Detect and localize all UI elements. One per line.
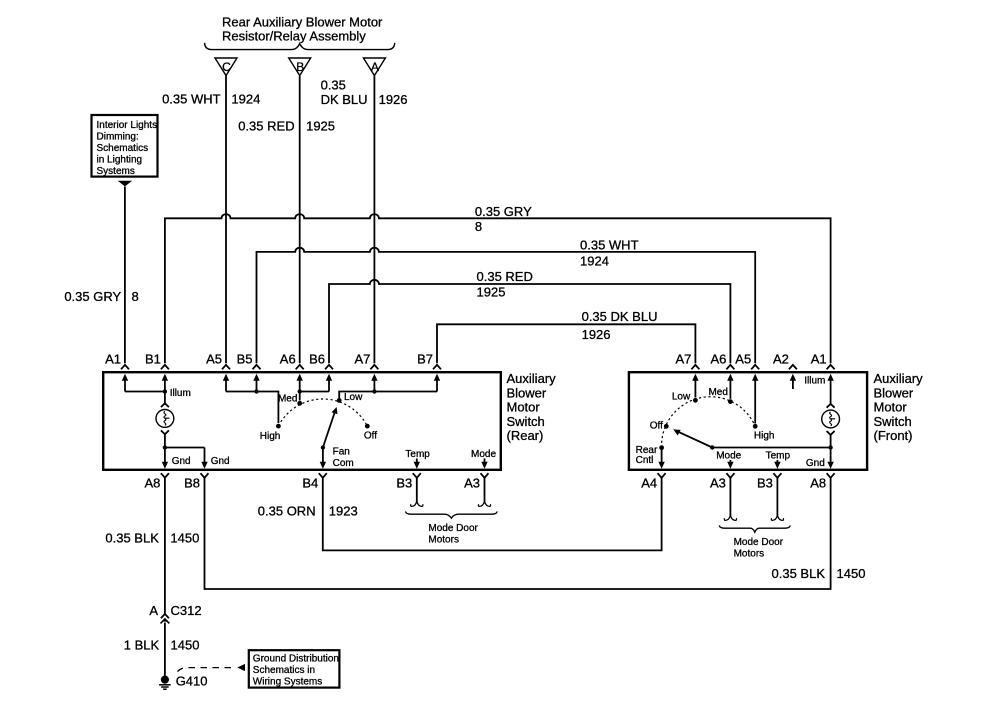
- svg-text:C: C: [222, 60, 231, 74]
- value label 0.35 GRY / 8 (left): [64, 289, 138, 304]
- svg-text:A2: A2: [773, 351, 789, 366]
- svg-text:Low: Low: [344, 392, 363, 403]
- svg-text:Wiring Systems: Wiring Systems: [253, 677, 322, 688]
- wire stub: front B3 to mode door motors: [771, 478, 783, 521]
- svg-text:0.35 BLK: 0.35 BLK: [772, 566, 826, 581]
- svg-text:A3: A3: [464, 476, 480, 491]
- pin A6 (front switch, top): [710, 351, 734, 369]
- wire: 0.35 DK BLU 1926 from pin A to rear switch A7: [373, 76, 375, 364]
- svg-text:Motor: Motor: [507, 400, 541, 415]
- pin A5 (rear switch, top): [206, 351, 230, 369]
- label Illum (rear): [170, 388, 191, 399]
- svg-text:(Rear): (Rear): [507, 428, 544, 443]
- label: Rear Auxiliary Blower Motor Resistor/Relay Assembly: [222, 15, 383, 44]
- svg-text:Auxiliary: Auxiliary: [507, 371, 557, 386]
- value label 0.35 BLK / 1450 (rear A8): [105, 531, 199, 546]
- svg-text:in Lighting: in Lighting: [97, 155, 143, 166]
- svg-text:High: High: [754, 430, 775, 441]
- svg-text:8: 8: [132, 289, 139, 304]
- wiper pivot junction (rear): [321, 445, 325, 449]
- wiper pivot junction (front): [710, 445, 714, 449]
- svg-text:1926: 1926: [379, 92, 408, 107]
- svg-text:Motors: Motors: [734, 549, 765, 560]
- svg-text:Switch: Switch: [507, 414, 545, 429]
- pin A8 (front switch, bottom): [810, 473, 834, 490]
- svg-text:G410: G410: [176, 673, 208, 688]
- wire: rear A1-B1 illum join: [125, 391, 165, 393]
- wire: rear A7-B7 join, drop to Low contact: [339, 392, 437, 399]
- svg-text:Resistor/Relay Assembly: Resistor/Relay Assembly: [222, 28, 366, 43]
- pin B5 (rear switch, top): [237, 351, 261, 369]
- pin A4 (front switch, bottom): [641, 473, 665, 490]
- svg-text:8: 8: [475, 219, 482, 234]
- label: Auxiliary Blower Motor Switch (Rear): [507, 371, 557, 443]
- svg-text:0.35 GRY: 0.35 GRY: [475, 204, 532, 219]
- contact High (rear): [276, 424, 281, 429]
- svg-text:Ground Distribution: Ground Distribution: [253, 654, 339, 665]
- value label 0.35 DK BLU / 1926: [321, 77, 408, 107]
- junction at rear A7: [372, 389, 376, 393]
- svg-text:B7: B7: [417, 351, 433, 366]
- svg-text:Motor: Motor: [874, 400, 908, 415]
- pin arrow down to rear B8 (Gnd): [201, 448, 207, 469]
- pin arrow down to rear A8 (Gnd): [162, 448, 168, 469]
- svg-text:DK BLU: DK BLU: [321, 92, 368, 107]
- svg-text:1926: 1926: [582, 327, 611, 342]
- svg-text:Low: Low: [672, 391, 691, 402]
- value label 1 BLK / 1450: [124, 638, 200, 653]
- contact High (front): [753, 424, 758, 429]
- svg-text:Rear Auxiliary Blower Motor: Rear Auxiliary Blower Motor: [222, 15, 383, 30]
- wire: gnd row join B1-B8: [165, 447, 205, 449]
- svg-text:B8: B8: [184, 476, 200, 491]
- svg-text:Schematics: Schematics: [97, 143, 149, 154]
- off-page arrow from interior lights box: [118, 181, 132, 187]
- svg-text:High: High: [260, 431, 281, 442]
- contact Rear Cntl (front): [659, 445, 664, 450]
- reference box: Interior Lights Dimming Schematics in Lighting Systems: [92, 115, 158, 177]
- svg-text:A6: A6: [710, 351, 726, 366]
- brace over connectors C,B,A: [205, 43, 395, 50]
- svg-text:A1: A1: [105, 351, 121, 366]
- svg-text:1450: 1450: [837, 566, 866, 581]
- svg-text:A7: A7: [354, 351, 370, 366]
- illumination lamp (front switch): [822, 404, 840, 435]
- junction at rear B5: [254, 389, 258, 393]
- wire: 0.35 RED 1925 bus from rear B6 to front A6 (hop over A wire): [329, 280, 730, 363]
- pin arrow into rear switch A5: [223, 374, 229, 392]
- pin arrow into front A1 (Illum): [827, 374, 833, 404]
- pin arrow into front A7, wire to Low contact: [692, 374, 698, 398]
- value label 0.35 RED / 1925 (bus): [477, 269, 533, 299]
- svg-text:Temp: Temp: [405, 449, 430, 460]
- svg-text:Illum: Illum: [170, 388, 191, 399]
- wire: 0.35 DK BLU 1926 bus from rear B7 to front A7: [437, 324, 695, 363]
- svg-text:1925: 1925: [306, 119, 335, 134]
- pin arrow into rear switch A7: [371, 374, 377, 392]
- label G410: [176, 673, 208, 688]
- pin A7 (front switch, top): [675, 351, 699, 369]
- wire stub: front A3 to mode door motors: [724, 478, 736, 521]
- svg-text:B5: B5: [237, 351, 253, 366]
- pin A3 (front switch, bottom): [710, 473, 734, 490]
- in-line connector C312 cavity A: [161, 614, 170, 624]
- contact Med (front): [728, 399, 733, 404]
- wire: 0.35 RED 1925 from pin B to rear switch A6: [299, 76, 301, 364]
- wire: 1 BLK 1450 from C312 to G410: [164, 623, 166, 676]
- connector pin C (resistor/relay assembly): [215, 58, 237, 76]
- svg-text:0.35 WHT: 0.35 WHT: [580, 238, 639, 253]
- svg-text:B4: B4: [302, 476, 318, 491]
- svg-text:0.35 WHT: 0.35 WHT: [162, 92, 221, 107]
- pin A5 (front switch, top): [735, 351, 759, 369]
- value label 0.35 RED / 1925: [238, 119, 335, 134]
- rotary contact arc (front, dashed) from Rear Cntl through Low/Med to High: [662, 397, 756, 448]
- svg-text:Auxiliary: Auxiliary: [874, 371, 924, 386]
- pin B8 (rear switch, bottom): [184, 473, 208, 490]
- svg-text:Switch: Switch: [874, 414, 912, 429]
- svg-text:B3: B3: [396, 476, 412, 491]
- label Temp + arrow to rear B3: [405, 449, 430, 460]
- svg-text:1925: 1925: [477, 284, 506, 299]
- svg-text:B6: B6: [309, 351, 325, 366]
- svg-text:B: B: [296, 60, 304, 74]
- svg-text:Interior Lights: Interior Lights: [97, 120, 158, 131]
- contact Off (rear): [365, 424, 370, 429]
- pin arrow into front A6, wire to Med contact: [727, 374, 733, 399]
- pin arrow into rear switch A6: [297, 374, 303, 392]
- junction at rear A6: [298, 389, 302, 393]
- svg-text:Mode: Mode: [716, 450, 741, 461]
- svg-text:0.35 RED: 0.35 RED: [238, 119, 294, 134]
- pin B3 (front switch, bottom): [757, 473, 781, 490]
- value label 0.35 ORN / 1923: [258, 503, 358, 518]
- wire: 0.35 BLK 1450 from rear B8 to front A8: [205, 478, 831, 589]
- svg-text:Illum: Illum: [804, 375, 825, 386]
- svg-text:C312: C312: [171, 603, 202, 618]
- wire: rear A6-B6 join: [300, 391, 329, 393]
- svg-text:Schematics in: Schematics in: [253, 665, 315, 676]
- svg-text:0.35 DK BLU: 0.35 DK BLU: [582, 309, 658, 324]
- pin A3 (rear switch, bottom): [464, 473, 488, 490]
- pin A7 (rear switch, top): [354, 351, 378, 369]
- junction at rear B1: [163, 389, 167, 393]
- label Gnd (rear B8): [211, 456, 230, 467]
- svg-text:B1: B1: [145, 351, 161, 366]
- pin arrow down to front A4 (Rear Cntl): [658, 448, 664, 469]
- value label 0.35 DK BLU / 1926 (bus): [582, 309, 658, 342]
- wire: A6 drop to Med contact: [299, 392, 301, 401]
- svg-text:0.35: 0.35: [321, 77, 346, 92]
- wire: front wiper pivot to gnd row: [712, 447, 830, 449]
- svg-text:1923: 1923: [329, 503, 358, 518]
- svg-text:Gnd: Gnd: [806, 458, 825, 469]
- svg-text:Gnd: Gnd: [211, 456, 230, 467]
- svg-text:Systems: Systems: [97, 166, 135, 177]
- svg-text:Blower: Blower: [507, 385, 547, 400]
- label Mode + arrow to front A3: [716, 450, 741, 461]
- svg-text:Med: Med: [708, 387, 727, 398]
- svg-text:Dimming:: Dimming:: [97, 132, 139, 143]
- svg-text:Cntl: Cntl: [636, 455, 654, 466]
- svg-text:A4: A4: [641, 476, 657, 491]
- pin B4 (rear switch, bottom): [302, 473, 326, 490]
- svg-text:Com: Com: [333, 458, 354, 469]
- wire: 0.35 WHT 1924 bus from rear B5 to front A5 (hops over B,A wires): [257, 248, 756, 364]
- wire: B1 down to illumination lamp: [164, 392, 166, 404]
- wire: 0.35 BLK 1450 from rear A8 down to C312: [164, 478, 166, 614]
- pin A6 (rear switch, top): [280, 351, 304, 369]
- rotary contact arc (rear, dashed): [278, 399, 367, 426]
- label Mode + arrow to rear A3: [471, 449, 496, 460]
- pin arrow into rear switch B7: [434, 374, 440, 392]
- pin arrow into front A2 (stub): [790, 374, 796, 389]
- svg-text:A: A: [371, 60, 379, 74]
- pin B1 (rear switch, top): [145, 351, 169, 369]
- wire stub: rear B3 to mode door motors: [411, 478, 423, 507]
- svg-text:Blower: Blower: [874, 385, 914, 400]
- svg-text:Med: Med: [278, 393, 297, 404]
- svg-text:0.35 BLK: 0.35 BLK: [105, 531, 159, 546]
- svg-text:Mode Door: Mode Door: [734, 537, 784, 548]
- svg-text:1450: 1450: [171, 638, 200, 653]
- junction at rear gnd row: [163, 445, 167, 449]
- pin A2 (front switch, top): [773, 351, 797, 369]
- label Gnd + arrow down to front A8: [806, 458, 825, 469]
- pin arrow into rear switch B1: [162, 374, 168, 392]
- svg-text:Fan: Fan: [333, 446, 350, 457]
- wire: lamp down to ground row: [164, 434, 166, 447]
- svg-text:Temp: Temp: [766, 450, 791, 461]
- svg-text:Off: Off: [364, 430, 377, 441]
- contact Low (rear): [337, 398, 342, 403]
- svg-text:A7: A7: [675, 351, 691, 366]
- wire: 0.35 GRY 8 from interior lights to rear switch A1: [124, 187, 126, 364]
- wire: 0.35 GRY 8 bus from rear B1 to front A1 (hops over C,B,A wires): [165, 214, 831, 363]
- pin arrow into front A5, wire to High contact: [752, 374, 758, 424]
- label Temp + arrow to front B3: [766, 450, 791, 461]
- pin arrow into rear switch A1: [122, 374, 128, 392]
- svg-text:B3: B3: [757, 476, 773, 491]
- svg-text:A: A: [149, 603, 158, 618]
- label: Auxiliary Blower Motor Switch (Front): [874, 371, 924, 443]
- wire: front lamp down to gnd row: [830, 435, 832, 448]
- pin arrow into rear switch B5: [253, 374, 259, 392]
- switch body: Auxiliary Blower Motor Switch (Front): [629, 372, 867, 470]
- pin A8 (rear switch, bottom): [144, 473, 168, 490]
- wire stub: rear A3 to mode door motors: [478, 478, 490, 507]
- junction front A1/gnd: [828, 445, 832, 449]
- brace + label: Mode Door Motors (rear): [406, 511, 498, 545]
- connector pin A (resistor/relay assembly): [363, 58, 385, 76]
- wire: 0.35 WHT 1924 from pin C to rear switch A5: [225, 76, 227, 364]
- svg-text:A8: A8: [144, 476, 160, 491]
- pin B6 (rear switch, top): [309, 351, 333, 369]
- svg-text:A3: A3: [710, 476, 726, 491]
- pin arrow down to rear B4 (Fan Com): [320, 448, 326, 469]
- svg-text:0.35 GRY: 0.35 GRY: [64, 289, 121, 304]
- connector pin B (resistor/relay assembly): [289, 58, 311, 76]
- svg-text:0.35 ORN: 0.35 ORN: [258, 503, 316, 518]
- label Gnd (rear A8): [172, 456, 191, 467]
- svg-text:1924: 1924: [580, 253, 609, 268]
- label Fan Com (rear): [333, 446, 354, 468]
- svg-text:A1: A1: [811, 351, 827, 366]
- svg-text:Motors: Motors: [428, 534, 459, 545]
- svg-text:0.35 RED: 0.35 RED: [477, 269, 533, 284]
- pin B3 (rear switch, bottom): [396, 473, 420, 490]
- svg-text:A8: A8: [810, 476, 826, 491]
- contact Med (rear): [297, 401, 302, 406]
- contact Low (front): [693, 398, 698, 403]
- contact Off (front): [664, 424, 669, 429]
- dashed leader from G410 to ground distribution box: [178, 664, 246, 672]
- svg-text:1924: 1924: [231, 92, 260, 107]
- svg-text:A5: A5: [206, 351, 222, 366]
- svg-text:Gnd: Gnd: [172, 456, 191, 467]
- wire: 0.35 ORN 1923 from rear B4 to front A4: [323, 478, 662, 551]
- svg-text:1450: 1450: [170, 531, 199, 546]
- illumination lamp (rear switch): [156, 403, 174, 434]
- svg-text:A6: A6: [280, 351, 296, 366]
- svg-text:Off: Off: [650, 421, 663, 432]
- switch body: Auxiliary Blower Motor Switch (Rear): [103, 372, 501, 470]
- brace + label: Mode Door Motors (front): [719, 525, 790, 559]
- pin arrow into rear switch B6: [326, 374, 332, 392]
- svg-text:1 BLK: 1 BLK: [124, 638, 160, 653]
- svg-text:Mode: Mode: [471, 449, 496, 460]
- svg-text:Mode Door: Mode Door: [428, 523, 478, 534]
- label A / C312: [149, 603, 201, 618]
- pin A1 (rear switch, top): [105, 351, 129, 369]
- value label 0.35 GRY / 8 (bus): [475, 204, 532, 234]
- svg-text:(Front): (Front): [874, 428, 913, 443]
- reference box: Ground Distribution Schematics in Wiring Systems: [249, 650, 340, 687]
- label Illum (front): [804, 375, 825, 386]
- wiper arm arrow (front) pointing to Off: [673, 429, 712, 447]
- ground symbol G410: [159, 676, 171, 690]
- value label 0.35 WHT / 1924: [162, 92, 260, 107]
- wire: rear A5-B5 join, drop to High contact: [226, 392, 278, 424]
- svg-text:A5: A5: [735, 351, 751, 366]
- value label 0.35 WHT / 1924 (bus): [580, 238, 639, 269]
- value label 0.35 BLK / 1450 (front A8): [772, 566, 866, 581]
- pin A1 (front switch, top): [811, 351, 835, 369]
- pin B7 (rear switch, top): [417, 351, 441, 369]
- wiper arm arrow (rear) pointing to Low: [323, 407, 338, 448]
